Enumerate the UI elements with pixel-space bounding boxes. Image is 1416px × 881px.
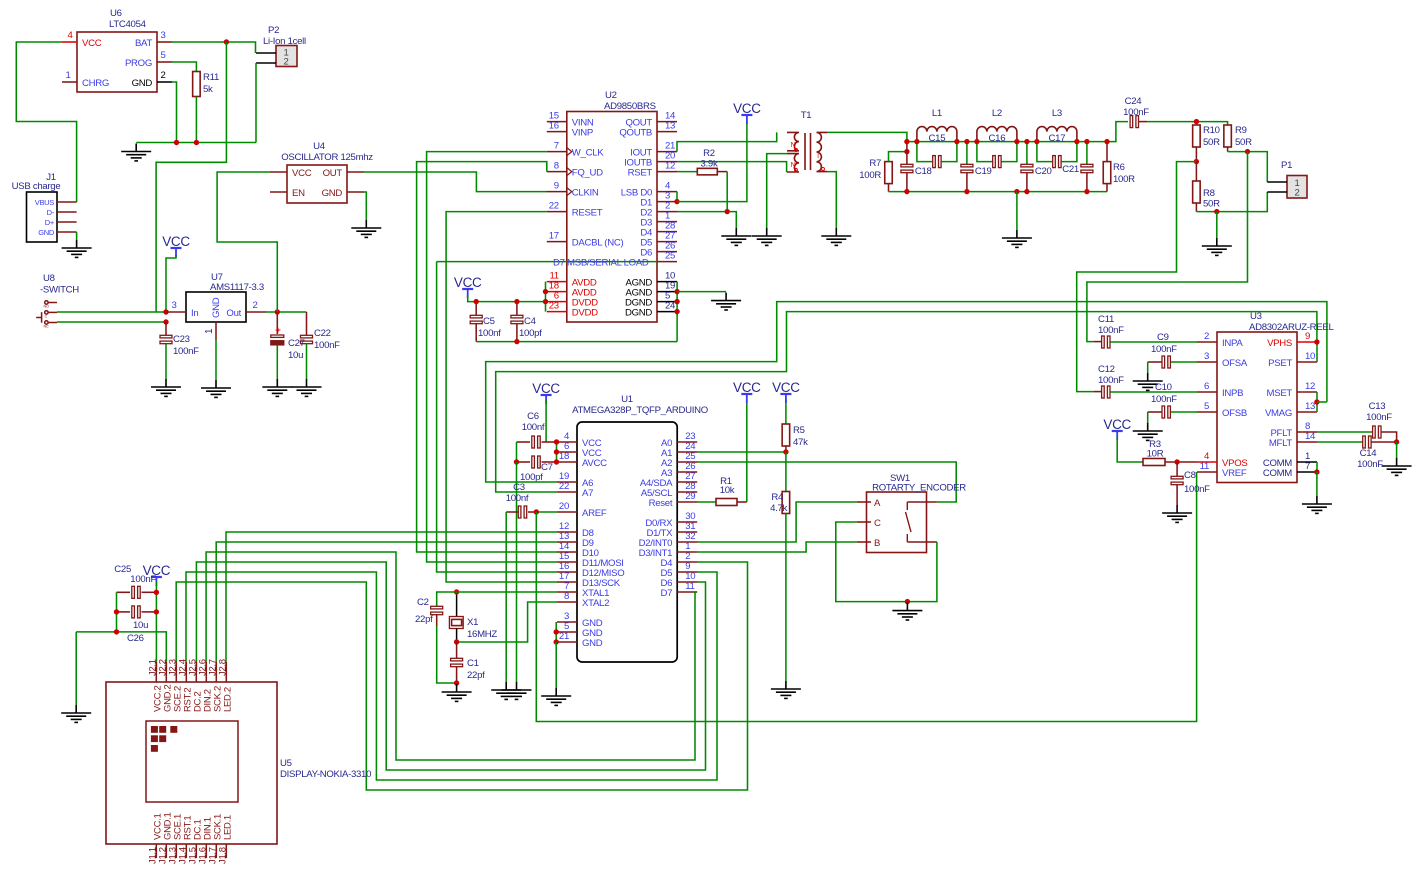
junction R9 node [1245, 149, 1250, 154]
U4 GND stub [347, 191, 364, 193]
capacitor C2 22pf [437, 592, 457, 606]
U5 top pin J2.7 SCK.2 [215, 662, 217, 682]
svg-text:RSET: RSET [628, 168, 653, 179]
U2 pin 2 D2 [657, 211, 677, 213]
U2 pin 4 LSB D0 [657, 191, 677, 193]
wire P1 ground rail [1196, 192, 1267, 212]
U6 pin 5 PROG stub [157, 61, 172, 63]
node battery+ junction [224, 39, 229, 44]
junction GND21 [554, 639, 559, 644]
wire P2 pin2 to ground rail [255, 63, 257, 143]
ground symbol T1 secondary [821, 228, 851, 245]
svg-text:C10: C10 [1155, 382, 1172, 393]
U1 pin 5 GND [557, 631, 577, 633]
junction C4 bottom [514, 339, 519, 344]
U5 bottom pin J1.8 LED.1 [225, 844, 227, 858]
U1 pin 20 AREF [557, 511, 577, 513]
capacitor C20 shunt [1026, 142, 1028, 164]
U2 pin 6 DVDD [547, 301, 567, 303]
svg-text:100nF: 100nF [1098, 375, 1124, 386]
svg-text:D-: D- [47, 208, 55, 217]
P1 pin 2 stub [1267, 191, 1287, 193]
wire R11 bottom to ground rail [195, 97, 197, 143]
junction pin18 [554, 459, 559, 464]
U2 pin 17 DACBL [547, 241, 567, 243]
U3 pin 5 OFSB [1197, 411, 1217, 413]
wire AREF to U3 VREF long route [536, 472, 1196, 722]
svg-text:22: 22 [559, 481, 569, 492]
junction C5 top [474, 299, 479, 304]
svg-text:AD8302ARUZ-REEL: AD8302ARUZ-REEL [1249, 322, 1335, 333]
ground symbol U1 GND [541, 688, 571, 705]
svg-text:FQ_UD: FQ_UD [572, 168, 603, 179]
U1 pin 32 D2 [677, 541, 697, 543]
svg-text:C12: C12 [1098, 364, 1115, 375]
U1 pin 22 A7 [557, 491, 577, 493]
svg-text:5k: 5k [203, 84, 213, 95]
U2 pin 21 IOUT [657, 151, 677, 153]
U2 pin 20 IOUTB [657, 161, 677, 163]
junction pin6 [554, 449, 559, 454]
junction filter ground tap [1014, 189, 1019, 194]
svg-text:10u: 10u [288, 350, 303, 361]
svg-text:+: + [275, 325, 281, 336]
junction C20 bottom [1024, 189, 1029, 194]
svg-text:C25: C25 [114, 564, 131, 575]
svg-text:3: 3 [171, 300, 176, 311]
svg-text:DACBL (NC): DACBL (NC) [572, 238, 624, 249]
wire U1 D8 to display SCK [226, 532, 557, 672]
U2 pin 13 QOUTB [657, 131, 677, 133]
capacitor C3 100nf [506, 511, 518, 513]
svg-text:C: C [874, 518, 881, 529]
wire U1 D7 loop [206, 552, 697, 760]
U3 pin 7 COMM [1297, 471, 1317, 473]
capacitor C7 100pf [517, 461, 531, 463]
U3 pin 14 MFLT [1297, 441, 1317, 443]
junction R10 bottom node [1194, 159, 1199, 164]
wire U1 D9 to display DIN [216, 542, 557, 672]
ground symbol AGND [711, 293, 741, 310]
svg-text:13: 13 [665, 121, 675, 132]
svg-text:12: 12 [1305, 381, 1315, 392]
svg-text:VCC: VCC [532, 381, 560, 396]
svg-text:A7: A7 [582, 488, 593, 499]
junction AREF [534, 509, 539, 514]
junction COMM [1314, 469, 1319, 474]
junction C7 left [514, 459, 519, 464]
junction C18 top [904, 139, 909, 144]
SW1 pin B stub [857, 541, 871, 543]
U2 pin 12 RSET [657, 171, 677, 173]
svg-text:VMAG: VMAG [1265, 408, 1292, 419]
svg-text:OUT: OUT [323, 168, 343, 179]
svg-text:U4: U4 [313, 141, 326, 152]
wire U2 IOUT to T1 [677, 132, 777, 151]
U5 bottom pin J1.4 RST.1 [185, 844, 187, 858]
svg-text:8: 8 [564, 591, 569, 602]
svg-text:Li-Ion 1cell: Li-Ion 1cell [263, 36, 306, 47]
junction R11 on rail [194, 140, 199, 145]
svg-text:D7: D7 [661, 588, 673, 599]
wire C7 left to ground [516, 462, 518, 682]
wire to ground below P1 rail [1216, 212, 1218, 238]
svg-text:100nF: 100nF [314, 340, 340, 351]
U1 pin 31 D1 [677, 531, 697, 533]
junction U7 In node [163, 309, 168, 314]
U1 pin 4 VCC [557, 441, 577, 443]
U1 pin 17 D13 [557, 581, 577, 583]
wire decoupling ground rail [476, 341, 677, 343]
capacitor C24 100nF [1130, 116, 1138, 128]
ground symbol U4 [351, 220, 381, 237]
ground symbol C6/C7 [502, 682, 532, 699]
wire C24 to R9 top [1196, 122, 1227, 125]
svg-text:PROG: PROG [125, 58, 152, 69]
connector P1 [1287, 176, 1307, 199]
svg-text:J2.8: J2.8 [217, 659, 228, 676]
svg-text:100pf: 100pf [519, 328, 542, 339]
regulator U7 AMS1117-3.3 body [186, 292, 246, 322]
svg-text:11: 11 [685, 581, 694, 592]
J1 GND stub [57, 231, 77, 233]
U1 pin 24 A1 [677, 451, 697, 453]
U1 pin 2 D4 [677, 561, 697, 563]
U2 pin 23 DVDD [547, 311, 567, 313]
wire A2 to encoder switch [697, 462, 956, 502]
wire U2 W_CLK to U1 D11 [427, 152, 557, 562]
junction L1 left [914, 139, 919, 144]
wire COMM tie [1316, 462, 1318, 472]
svg-text:D+: D+ [45, 218, 55, 227]
junction C1 bottom [454, 680, 459, 685]
U1 pin 15 D11 [557, 561, 577, 563]
svg-text:T1: T1 [801, 110, 812, 121]
U3 pin 10 PSET [1297, 361, 1317, 363]
U1 pin 9 D5 [677, 571, 697, 573]
resistor R6 100R [1106, 142, 1108, 162]
junction C18 bottom [904, 189, 909, 194]
svg-text:VCC: VCC [733, 380, 761, 395]
U2 pin 19 AGND [657, 291, 677, 293]
junction MSET/VMAG [1314, 399, 1319, 404]
svg-text:C8: C8 [1184, 470, 1196, 481]
SW1 internal switch [906, 502, 937, 542]
svg-text:N: N [791, 162, 796, 169]
U1 pin 10 D6 [677, 581, 697, 583]
svg-text:D7 MSB/SERIAL LOAD: D7 MSB/SERIAL LOAD [553, 258, 649, 269]
U2 pin 9 CLKIN [547, 191, 567, 193]
svg-text:VPHS: VPHS [1267, 338, 1292, 349]
svg-text:24: 24 [665, 301, 676, 312]
U5 bottom pin J1.2 GND.1 [165, 844, 167, 858]
svg-text:C9: C9 [1157, 332, 1169, 343]
U6 pin 3 BAT stub [157, 41, 172, 43]
U3 pin 4 VPOS [1197, 461, 1217, 463]
resistor R7 100R [888, 184, 890, 192]
svg-text:16: 16 [549, 121, 559, 132]
svg-text:XTAL2: XTAL2 [582, 598, 609, 609]
ground symbol U7 [201, 380, 231, 397]
svg-text:U5: U5 [280, 758, 292, 769]
svg-text:100R: 100R [1113, 174, 1135, 185]
svg-text:U2: U2 [605, 90, 617, 101]
P2 pin 2 stub [256, 62, 276, 64]
U5 top pin J2.5 DC.2 [195, 662, 197, 682]
U1 pin 29 Reset [677, 501, 697, 503]
wire U2 RSET to R2 [677, 171, 697, 173]
svg-text:50R: 50R [1203, 199, 1220, 210]
wire X1 bottom to XTAL2 [457, 602, 557, 642]
U1 pin 1 D3 [677, 551, 697, 553]
U4 VCC stub [270, 171, 287, 173]
capacitor C26 10u [117, 611, 131, 613]
ground symbol R4 [771, 681, 801, 698]
junction pin4 [554, 439, 559, 444]
svg-text:BAT: BAT [135, 38, 152, 49]
svg-text:L1: L1 [932, 108, 942, 119]
resistor R3 10R [1143, 459, 1165, 466]
svg-text:R8: R8 [1203, 188, 1215, 199]
U1 pin 21 GND [557, 641, 577, 643]
svg-text:CLKIN: CLKIN [572, 188, 599, 199]
junction L3 right [1074, 139, 1079, 144]
svg-text:C26: C26 [127, 633, 144, 644]
svg-text:J1.8: J1.8 [217, 847, 228, 864]
U3 pin 13 VMAG [1297, 411, 1317, 413]
wire filter top rail [907, 122, 1128, 142]
U1 pin 30 D0 [677, 521, 697, 523]
wire AREF net [536, 511, 557, 513]
ground symbol C23 [151, 379, 181, 396]
wire U2 D0-D1 tie [676, 192, 678, 202]
wire AVDD/DVDD tie [545, 282, 547, 312]
junction R2/D2 [725, 209, 730, 214]
connector J1 USB charge [27, 192, 58, 242]
wire AGND to ground [677, 291, 726, 293]
wire battery node down to switch [156, 42, 226, 312]
svg-text:2: 2 [1204, 331, 1209, 342]
svg-text:10R: 10R [1147, 449, 1164, 460]
svg-text:100R: 100R [859, 170, 881, 181]
J1 D+ stub [57, 221, 77, 223]
svg-text:N: N [791, 142, 796, 149]
U2 pin 26 D6 [657, 251, 677, 253]
oscillator U4 125mhz body [287, 165, 347, 203]
U2 pin 10 AGND [657, 281, 677, 283]
wire U1 D5 loop [186, 572, 717, 780]
junction SW1 ground [905, 599, 910, 604]
svg-text:OFSA: OFSA [1222, 358, 1248, 369]
connector P2 Li-Ion 1cell [276, 46, 297, 67]
junction R5/A1/R4 [783, 449, 788, 454]
svg-text:QOUTB: QOUTB [619, 128, 652, 139]
U3 pin 8 PFLT [1297, 431, 1317, 433]
wire XTAL1 to X1 [457, 591, 557, 593]
wire VCC/AVCC tie [556, 442, 558, 462]
svg-text:R6: R6 [1113, 162, 1125, 173]
IC U3 AD8302ARUZ-REEL body [1217, 332, 1297, 483]
svg-text:3: 3 [160, 30, 165, 41]
junction C21 bottom [1084, 189, 1089, 194]
U3 pin 12 MSET [1297, 391, 1317, 393]
svg-text:MFLT: MFLT [1269, 438, 1293, 449]
wire serial load vertical to D12 [437, 262, 557, 572]
U2 pin 8 FQ_UD [547, 171, 567, 173]
svg-text:100nF: 100nF [1098, 325, 1124, 336]
wire U2 RESET to U1 D13 [446, 212, 557, 582]
U1 pin 26 A3 [677, 471, 697, 473]
svg-text:2: 2 [252, 300, 257, 311]
U5 bottom pin J1.5 DC.1 [195, 844, 197, 858]
svg-text:Reset: Reset [649, 498, 673, 509]
svg-text:OFSB: OFSB [1222, 408, 1247, 419]
P1 pin 1 stub [1267, 181, 1287, 183]
svg-text:25: 25 [665, 251, 675, 262]
wire U1 GND to ground [555, 642, 557, 688]
wire VPHS/PSET tie [1316, 342, 1318, 362]
U4 EN stub [270, 191, 287, 193]
U1 pin 8 XTAL2 [557, 601, 577, 603]
U5 bottom pin J1.1 VCC.1 [155, 844, 157, 858]
SW1 pin C stub [857, 521, 871, 523]
svg-text:100nf: 100nf [478, 328, 501, 339]
wire D7 MSB/SERIAL LOAD net [437, 261, 657, 263]
svg-text:C16: C16 [989, 133, 1006, 144]
junction AVDD 18 [543, 289, 548, 294]
U2 pin 28 D4 [657, 231, 677, 233]
U2 pin 14 QOUT [657, 121, 677, 123]
svg-text:C24: C24 [1125, 96, 1143, 107]
resistor R9 50R [1224, 125, 1232, 147]
U2 pin 24 DGND [657, 311, 677, 313]
svg-text:1: 1 [204, 328, 215, 334]
svg-text:LTC4054: LTC4054 [109, 19, 147, 30]
junction C19 bottom [964, 189, 969, 194]
wire switch to U7 In [57, 311, 166, 313]
capacitor C23 100nF [165, 322, 167, 335]
svg-text:ATMEGA328P_TQFP_ARDUINO: ATMEGA328P_TQFP_ARDUINO [572, 405, 708, 416]
svg-text:GND: GND [132, 78, 153, 89]
svg-text:14: 14 [1305, 431, 1316, 442]
junction R6 top [1104, 139, 1109, 144]
junction U6 GND on rail [174, 140, 179, 145]
svg-text:7: 7 [1305, 461, 1310, 472]
junction AGND 19 [674, 289, 679, 294]
U6 pin 1 CHRG stub [62, 81, 77, 83]
svg-text:VCC: VCC [454, 275, 482, 290]
resistor R11 5k [193, 72, 201, 97]
ground symbol SW1 [892, 603, 922, 620]
junction L2 right [1014, 139, 1019, 144]
svg-text:2: 2 [1295, 188, 1300, 199]
U5 top pin J2.8 LED.2 [225, 662, 227, 682]
svg-text:AMS1117-3.3: AMS1117-3.3 [210, 282, 264, 293]
rotary encoder SW1 body [867, 492, 927, 553]
svg-text:COMM: COMM [1263, 468, 1292, 479]
svg-text:P2: P2 [268, 25, 279, 36]
svg-text:50R: 50R [1203, 137, 1220, 148]
svg-text:4.7k: 4.7k [770, 503, 787, 514]
svg-text:100nF: 100nF [1357, 459, 1383, 470]
wire U1 GND pins tie [555, 622, 557, 642]
junction C13/C14 [1394, 439, 1399, 444]
svg-text:22: 22 [549, 201, 559, 212]
U1 pin 28 A5 [677, 491, 697, 493]
U3 pin 9 VPHS [1297, 341, 1317, 343]
svg-text:L3: L3 [1052, 108, 1062, 119]
inductor L2 [977, 127, 1017, 142]
svg-text:R11: R11 [203, 72, 219, 83]
resistor R1 10k [697, 501, 716, 503]
wire A1 to R5/R4 [697, 451, 786, 453]
IC U2 AD9850BRS body [567, 112, 657, 323]
resistor R4 4.7k [785, 452, 787, 492]
wire MFLT to C14 [1317, 441, 1363, 443]
svg-text:22pf: 22pf [467, 670, 485, 681]
ground symbol C8 [1162, 505, 1192, 522]
J1 VBUS stub [57, 201, 77, 203]
junction DGND 24 [674, 309, 679, 314]
svg-text:2: 2 [160, 70, 165, 81]
U7 pin 2 stub [246, 311, 266, 313]
wire switch lower contact [57, 321, 166, 323]
ground symbol C3 [491, 682, 521, 699]
svg-text:C23: C23 [173, 334, 190, 345]
P2 pin 1 stub [256, 52, 276, 54]
junction L1 right [954, 139, 959, 144]
U5 top pin J2.3 SCE.2 [175, 662, 177, 682]
svg-text:AVCC: AVCC [582, 458, 607, 469]
U3 pin 2 INPA [1197, 341, 1217, 343]
svg-text:C6: C6 [527, 411, 539, 422]
svg-text:ROTARTY_ENCODER: ROTARTY_ENCODER [872, 483, 966, 494]
wire U2 FQ_UD to U1 D10 [417, 162, 557, 552]
svg-text:17: 17 [549, 231, 559, 242]
svg-text:VREF: VREF [1222, 468, 1247, 479]
svg-text:VCC: VCC [292, 168, 312, 179]
wire U1 D3 to SW1 B [697, 542, 857, 552]
svg-text:X1: X1 [467, 617, 478, 628]
svg-text:NC: NC [44, 325, 49, 329]
svg-text:C4: C4 [524, 316, 537, 327]
U2 pin 18 AVDD [547, 291, 567, 293]
junction DGND 5 [674, 299, 679, 304]
SW1 pin A stub [857, 501, 871, 503]
capacitor C6 100nf [517, 441, 531, 443]
capacitor C16 series [977, 142, 993, 162]
capacitor C21 shunt [1086, 142, 1088, 164]
IC U1 ATMEGA328P_TQFP_ARDUINO body [577, 422, 677, 662]
wire SW1 C to ground rail [836, 522, 937, 602]
svg-text:C17: C17 [1049, 133, 1066, 144]
capacitor C11 100nF [1102, 336, 1110, 348]
svg-text:C11: C11 [1098, 314, 1114, 325]
junction L2 left [974, 139, 979, 144]
svg-text:DVDD: DVDD [572, 308, 598, 319]
junction C26 right [154, 609, 159, 614]
wire U6 VCC to J1 VBUS [16, 42, 76, 202]
junction VPHS [1314, 339, 1319, 344]
capacitor C17 series [1037, 142, 1053, 162]
junction C20 top [1024, 139, 1029, 144]
wire R10 node to INPB chain [1077, 162, 1197, 392]
display logo squares [151, 726, 158, 733]
svg-text:22pf: 22pf [415, 614, 433, 625]
U2 pin 15 VINN [547, 121, 567, 123]
svg-text:In: In [191, 308, 198, 319]
junction VPOS/C8 [1174, 459, 1179, 464]
